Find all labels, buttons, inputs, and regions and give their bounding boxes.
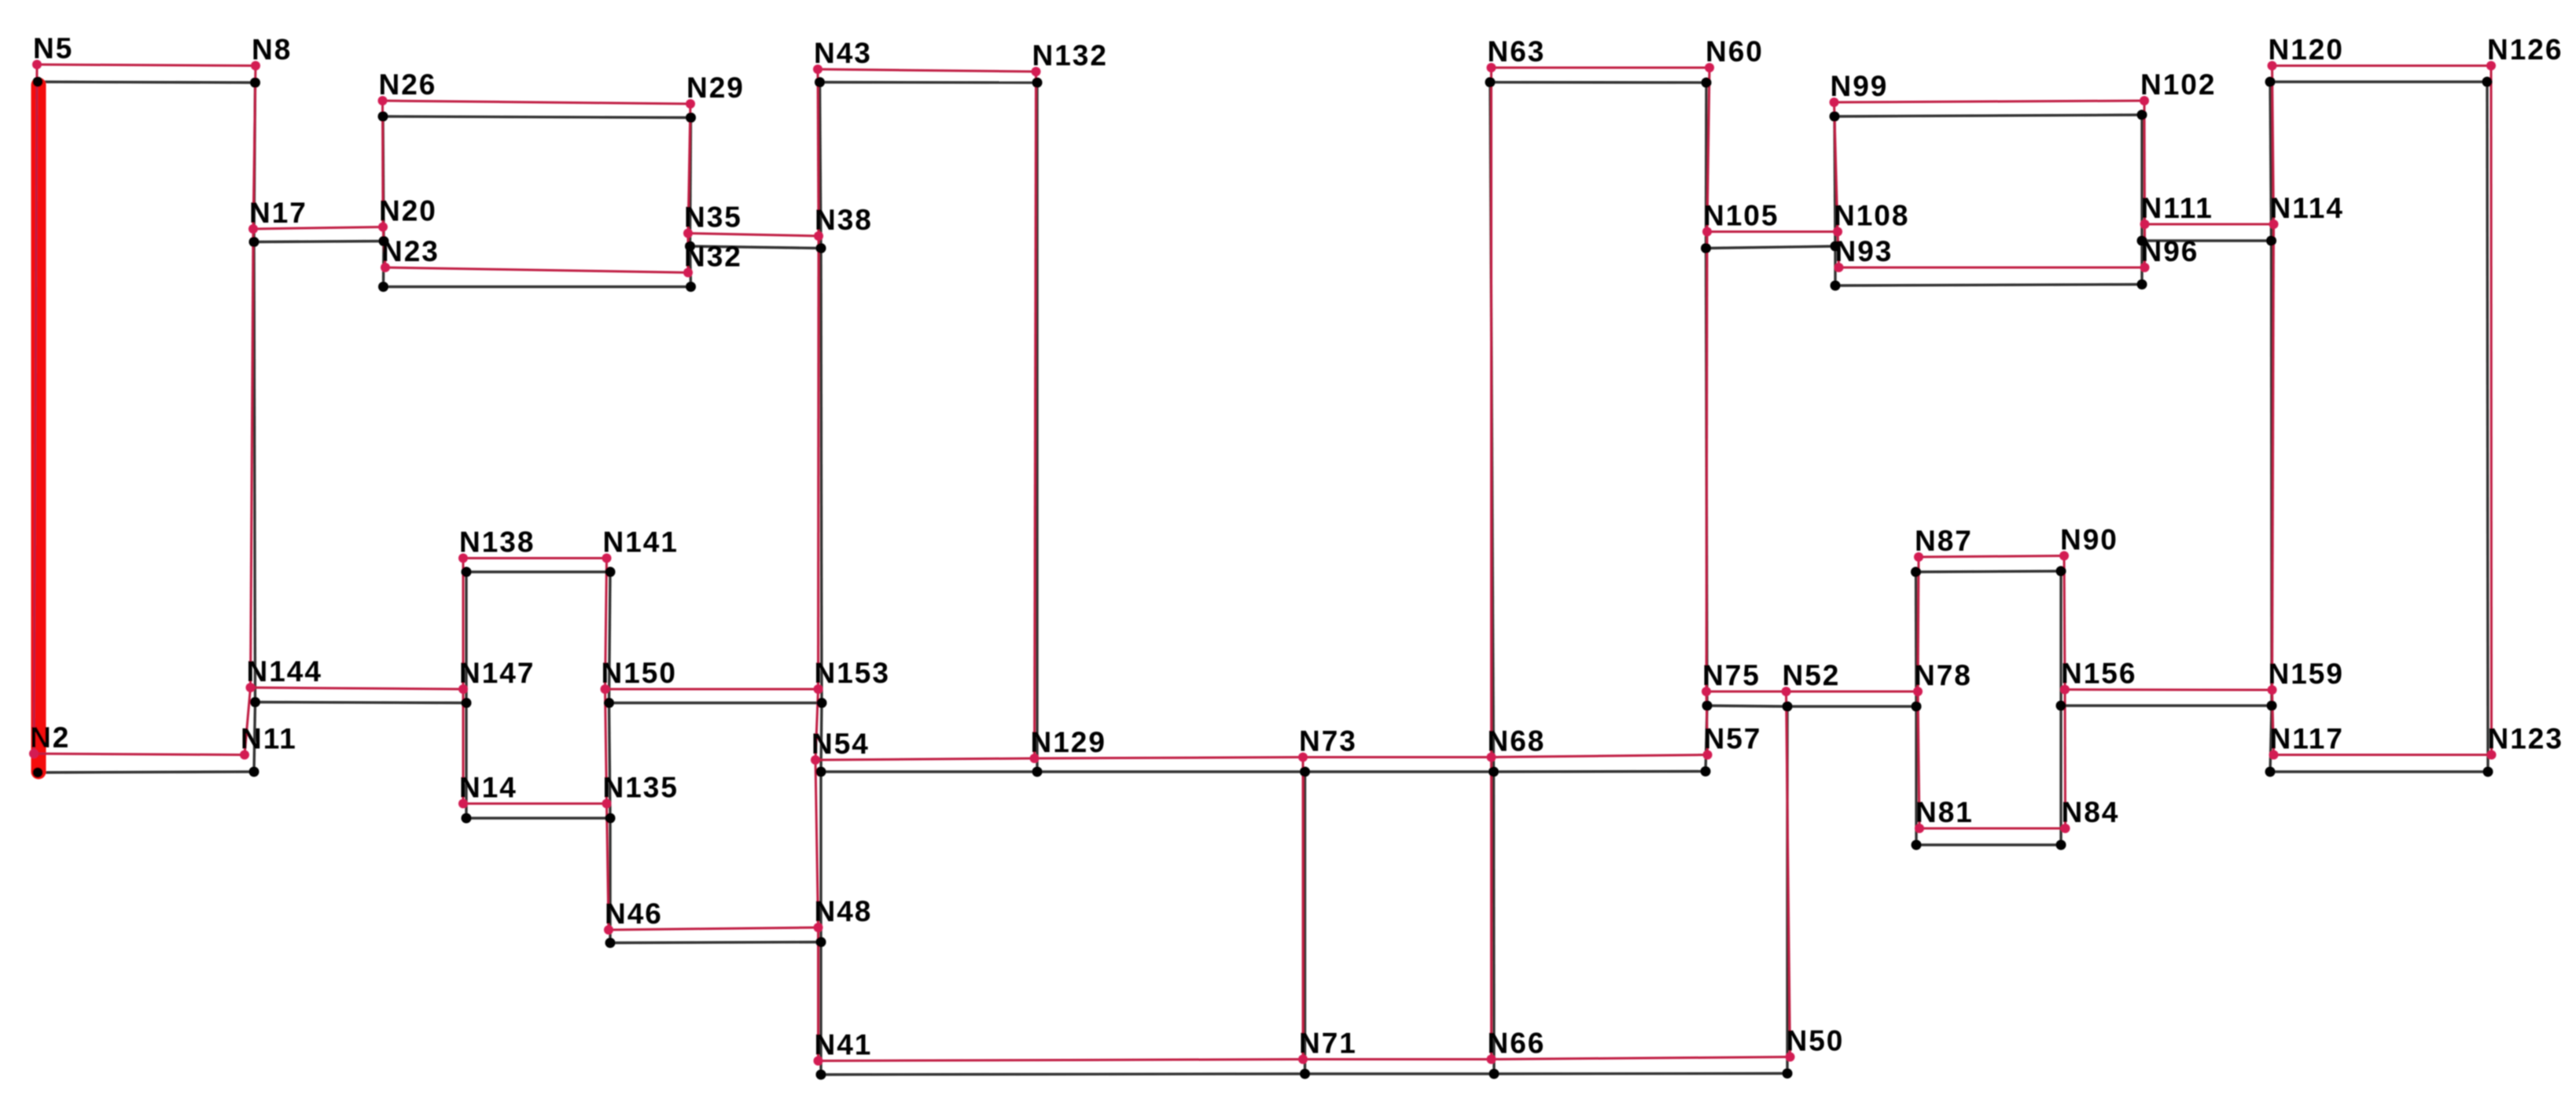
node N138 red marker bbox=[458, 554, 468, 563]
node N120 red marker bbox=[2268, 61, 2277, 71]
node N150 black marker bbox=[604, 698, 614, 708]
svg-text:N153: N153 bbox=[815, 657, 890, 689]
wire red edge N159-N156 bbox=[2065, 688, 2272, 691]
wire thick red highlighted edge N2-N5 bbox=[31, 85, 46, 772]
wire red edge N60-N63 bbox=[1492, 67, 1710, 69]
wire black edge N138-N147 bbox=[465, 572, 467, 703]
svg-text:N68: N68 bbox=[1488, 725, 1546, 758]
wire black edge N38-N43 bbox=[820, 83, 822, 249]
wire red edge N117-N159 bbox=[2272, 690, 2274, 755]
svg-text:N73: N73 bbox=[1299, 725, 1357, 758]
node N144 red marker bbox=[246, 683, 256, 692]
wire black edge N32-N23 bbox=[384, 286, 691, 288]
node N14 black marker bbox=[462, 813, 472, 824]
wire red edge N102-N111 bbox=[2144, 101, 2147, 224]
svg-text:N11: N11 bbox=[241, 723, 297, 755]
svg-text:N32: N32 bbox=[684, 241, 742, 273]
wire red edge N75-N57 bbox=[1706, 691, 1708, 755]
svg-text:N120: N120 bbox=[2269, 34, 2344, 66]
node N132 red marker bbox=[1032, 67, 1041, 76]
wire red edge N129-N73 bbox=[1035, 758, 1304, 759]
node N63 black marker bbox=[1485, 77, 1496, 87]
wire red edge N26-N29 bbox=[383, 101, 691, 104]
svg-text:N135: N135 bbox=[603, 772, 679, 804]
svg-text:N46: N46 bbox=[605, 898, 663, 930]
wire red edge N111-N114 bbox=[2145, 223, 2274, 226]
node N105 black marker bbox=[1701, 243, 1711, 253]
wire black edge N105-N60 bbox=[1705, 83, 1708, 249]
wire black edge N111-N114 bbox=[2142, 239, 2272, 242]
svg-text:N90: N90 bbox=[2060, 524, 2118, 556]
node N57 red marker bbox=[1703, 750, 1713, 760]
svg-text:N43: N43 bbox=[814, 37, 872, 69]
node N144 black marker bbox=[250, 697, 260, 707]
wire red edge N68-N57 bbox=[1492, 755, 1708, 758]
node N32 red marker bbox=[683, 268, 693, 278]
wire red edge N35-N38 bbox=[688, 234, 819, 237]
wire black edge N20-N26 bbox=[383, 116, 384, 242]
node N23 black marker bbox=[378, 282, 388, 292]
wire black edge N144-N11 bbox=[254, 703, 256, 773]
node N132 black marker bbox=[1032, 78, 1043, 88]
svg-text:N108: N108 bbox=[1834, 200, 1909, 232]
wire red edge N135-N150 bbox=[605, 689, 607, 804]
wire black edge N105-N108 bbox=[1706, 246, 1836, 249]
svg-text:N147: N147 bbox=[459, 657, 535, 689]
node N84 black marker bbox=[2056, 840, 2066, 850]
node N29 red marker bbox=[686, 99, 695, 109]
node N138 black marker bbox=[462, 567, 472, 577]
node N147 black marker bbox=[462, 698, 472, 708]
wire black edge N73-N68 bbox=[1305, 770, 1494, 773]
wire red edge N150-N141 bbox=[605, 559, 607, 690]
node N93 black marker bbox=[1831, 281, 1841, 291]
wire red edge N32-N23 bbox=[385, 267, 688, 273]
wire red edge N144-N11 bbox=[245, 688, 251, 755]
node N75 red marker bbox=[1702, 687, 1711, 696]
wire red edge N48-N54 bbox=[815, 760, 819, 927]
node N93 red marker bbox=[1834, 263, 1844, 272]
wire black edge N35-N32 bbox=[690, 246, 691, 287]
node N78 black marker bbox=[1912, 702, 1922, 712]
node N68 black marker bbox=[1489, 767, 1499, 777]
wire black edge N66-N50 bbox=[1494, 1072, 1787, 1075]
wire black edge N159-N114 bbox=[2270, 241, 2273, 706]
node N63 red marker bbox=[1487, 63, 1496, 72]
wire black edge N48-N41 bbox=[819, 942, 822, 1075]
node N26 red marker bbox=[378, 96, 388, 105]
node N73 black marker bbox=[1300, 767, 1310, 777]
svg-text:N71: N71 bbox=[1299, 1027, 1357, 1060]
wire black edge N54-N129 bbox=[821, 770, 1037, 773]
node N84 red marker bbox=[2061, 824, 2070, 833]
wire black edge N38-N153 bbox=[821, 249, 822, 703]
node N87 red marker bbox=[1914, 552, 1923, 562]
svg-text:N17: N17 bbox=[249, 197, 307, 229]
svg-text:N81: N81 bbox=[1915, 796, 1974, 828]
wire black edge N60-N63 bbox=[1490, 81, 1706, 84]
node N8 red marker bbox=[251, 61, 260, 71]
svg-text:N50: N50 bbox=[1787, 1025, 1845, 1057]
wire red edge N132-N129 bbox=[1035, 72, 1036, 758]
node N41 red marker bbox=[814, 1057, 823, 1066]
wire red edge N29-N35 bbox=[688, 104, 690, 234]
svg-text:N87: N87 bbox=[1915, 525, 1973, 557]
node N60 black marker bbox=[1702, 78, 1712, 88]
wire red edge N120-N126 bbox=[2272, 65, 2492, 67]
node N102 black marker bbox=[2137, 110, 2147, 120]
wire red edge N35-N32 bbox=[687, 234, 690, 273]
wire red edge N20-N26 bbox=[381, 101, 385, 227]
wire red edge N147-N144 bbox=[251, 688, 464, 689]
svg-text:N141: N141 bbox=[603, 526, 679, 559]
svg-text:N117: N117 bbox=[2270, 723, 2344, 755]
wire red edge N17-N20 bbox=[253, 227, 383, 230]
wire red edge N41-N71 bbox=[819, 1060, 1304, 1061]
node N75 black marker bbox=[1702, 701, 1713, 711]
node N99 black marker bbox=[1830, 112, 1840, 122]
wire red edge N81-N84 bbox=[1919, 828, 2066, 830]
svg-text:N38: N38 bbox=[815, 204, 873, 236]
wire black edge N135-N150 bbox=[609, 703, 611, 819]
node N129 black marker bbox=[1032, 767, 1043, 777]
node N147 red marker bbox=[458, 684, 468, 694]
wire red edge N75-N105 bbox=[1706, 232, 1707, 692]
node N48 red marker bbox=[814, 923, 823, 932]
wire black edge N114-N120 bbox=[2270, 82, 2272, 241]
wire black edge N108-N93 bbox=[1834, 246, 1836, 286]
node N153 red marker bbox=[814, 684, 823, 694]
wire red edge N66-N50 bbox=[1492, 1057, 1790, 1060]
svg-text:N66: N66 bbox=[1488, 1027, 1546, 1060]
svg-text:N60: N60 bbox=[1706, 35, 1764, 68]
svg-text:N35: N35 bbox=[684, 201, 742, 234]
svg-text:N96: N96 bbox=[2141, 235, 2199, 267]
wire red edge N141-N138 bbox=[463, 557, 607, 559]
svg-text:N20: N20 bbox=[379, 195, 437, 227]
wire black edge N29-N35 bbox=[690, 118, 691, 247]
wire black edge N71-N66 bbox=[1305, 1072, 1495, 1075]
wire red edge N108-N99 bbox=[1834, 102, 1838, 232]
svg-text:N111: N111 bbox=[2141, 192, 2214, 224]
wire black edge N52-N78 bbox=[1787, 705, 1916, 707]
node N11 red marker bbox=[240, 750, 249, 760]
node N129 red marker bbox=[1030, 754, 1040, 763]
wire red edge N52-N78 bbox=[1787, 691, 1919, 693]
svg-text:N54: N54 bbox=[811, 728, 870, 760]
wire red edge N114-N120 bbox=[2272, 66, 2274, 225]
node N41 black marker bbox=[816, 1070, 826, 1080]
svg-text:N41: N41 bbox=[815, 1029, 873, 1061]
node N111 red marker bbox=[2140, 219, 2150, 229]
node N126 black marker bbox=[2482, 77, 2493, 87]
node N52 black marker bbox=[1783, 702, 1793, 712]
svg-text:N14: N14 bbox=[459, 772, 517, 804]
svg-text:N52: N52 bbox=[1783, 659, 1841, 691]
node N2 red marker bbox=[29, 749, 39, 758]
wire red edge N52-N75 bbox=[1706, 691, 1787, 693]
node N96 black marker bbox=[2137, 279, 2147, 289]
node N123 black marker bbox=[2483, 767, 2493, 777]
svg-text:N150: N150 bbox=[602, 657, 677, 689]
node N71 black marker bbox=[1300, 1069, 1310, 1079]
svg-text:N8: N8 bbox=[252, 34, 292, 66]
wire black edge N41-N71 bbox=[821, 1074, 1305, 1075]
wire black edge N8-N17 bbox=[254, 83, 256, 242]
wire red edge N99-N102 bbox=[1834, 101, 2145, 102]
wire red edge N38-N43 bbox=[818, 69, 819, 236]
node N5 black marker bbox=[33, 77, 43, 87]
node N20 black marker bbox=[379, 236, 389, 246]
node N141 black marker bbox=[605, 567, 616, 577]
wire red edge N90-N87 bbox=[1919, 556, 2064, 558]
wire black edge N50-N52 bbox=[1786, 706, 1788, 1074]
wire red edge N43-N132 bbox=[818, 69, 1036, 72]
wire black edge N147-N144 bbox=[256, 703, 467, 703]
wire red edge N87-N78 bbox=[1918, 557, 1919, 691]
node N23 red marker bbox=[381, 263, 390, 272]
node N114 black marker bbox=[2266, 236, 2276, 246]
node N17 black marker bbox=[249, 237, 259, 247]
wire red edge N50-N52 bbox=[1787, 691, 1790, 1057]
wire black edge N26-N29 bbox=[383, 116, 691, 118]
node N156 black marker bbox=[2056, 701, 2066, 711]
wire black edge N52-N75 bbox=[1707, 706, 1787, 706]
wire black edge N147-N14 bbox=[465, 703, 467, 819]
wire black edge N117-N159 bbox=[2270, 706, 2272, 772]
wire black edge N78-N81 bbox=[1915, 706, 1917, 845]
svg-text:N84: N84 bbox=[2062, 796, 2120, 828]
node N17 red marker bbox=[248, 224, 258, 234]
node N81 red marker bbox=[1915, 824, 1924, 833]
node N108 red marker bbox=[1833, 227, 1842, 237]
wire black edge N93-N96 bbox=[1835, 285, 2142, 286]
node N159 red marker bbox=[2268, 685, 2277, 695]
svg-text:N5: N5 bbox=[33, 32, 73, 65]
wire red edge N66-N68 bbox=[1490, 758, 1492, 1060]
svg-text:N2: N2 bbox=[30, 721, 70, 754]
node N105 red marker bbox=[1702, 227, 1712, 237]
node N156 red marker bbox=[2060, 685, 2070, 695]
svg-text:N123: N123 bbox=[2488, 723, 2563, 755]
node N68 red marker bbox=[1487, 753, 1496, 762]
wire black edge N120-N126 bbox=[2270, 80, 2487, 83]
wire black edge N108-N99 bbox=[1834, 116, 1835, 246]
node N35 red marker bbox=[683, 229, 693, 238]
wire red edge N156-N90 bbox=[2064, 556, 2065, 690]
svg-text:N102: N102 bbox=[2140, 68, 2216, 101]
node N26 black marker bbox=[378, 112, 388, 122]
node N20 red marker bbox=[378, 223, 388, 232]
node N66 red marker bbox=[1487, 1055, 1496, 1064]
wire red edge N14-N135 bbox=[463, 802, 607, 805]
wire red edge N159-N114 bbox=[2272, 224, 2274, 690]
wire red edge N123-N117 bbox=[2274, 754, 2492, 756]
wire black edge N150-N141 bbox=[609, 572, 611, 703]
svg-text:N105: N105 bbox=[1703, 200, 1779, 232]
wire black edge N68-N57 bbox=[1494, 770, 1706, 773]
node N111 black marker bbox=[2137, 236, 2147, 246]
wire red edge N135-N46 bbox=[607, 804, 609, 931]
node N43 red marker bbox=[813, 65, 822, 74]
node N123 red marker bbox=[2487, 750, 2497, 760]
node N159 black marker bbox=[2267, 701, 2277, 711]
wire black edge N54-N153 bbox=[821, 703, 822, 773]
wire red edge N105-N108 bbox=[1707, 230, 1838, 233]
node N43 black marker bbox=[815, 77, 825, 87]
wire black edge N132-N129 bbox=[1036, 83, 1038, 772]
wire black edge N156-N90 bbox=[2059, 571, 2062, 706]
node N2 black marker bbox=[33, 768, 43, 778]
wire red edge N126-N123 bbox=[2490, 66, 2493, 755]
node N71 red marker bbox=[1298, 1055, 1308, 1064]
node N48 black marker bbox=[816, 937, 826, 947]
node N38 red marker bbox=[814, 231, 823, 241]
wire black edge N87-N78 bbox=[1915, 572, 1918, 706]
wire black edge N17-N144 bbox=[254, 242, 256, 703]
wire black edge N17-N20 bbox=[254, 242, 384, 242]
wire black edge N129-N73 bbox=[1037, 770, 1305, 773]
wire red edge N63-N68 bbox=[1490, 68, 1492, 758]
node N108 black marker bbox=[1831, 242, 1841, 252]
wire black edge N5-N8 bbox=[38, 82, 256, 83]
svg-text:N93: N93 bbox=[1835, 235, 1893, 267]
wire red edge N71-N73 bbox=[1302, 758, 1305, 1060]
wire black edge N135-N46 bbox=[609, 818, 611, 943]
svg-text:N114: N114 bbox=[2270, 192, 2344, 224]
node N46 black marker bbox=[605, 938, 616, 948]
wire red edge N11-N2 bbox=[34, 754, 245, 755]
node N29 black marker bbox=[686, 112, 696, 123]
wire red edge N84-N156 bbox=[2064, 690, 2067, 829]
node N117 red marker bbox=[2269, 750, 2279, 760]
svg-text:N144: N144 bbox=[247, 655, 322, 688]
svg-text:N57: N57 bbox=[1704, 723, 1762, 755]
svg-text:N48: N48 bbox=[815, 895, 873, 927]
node N99 red marker bbox=[1830, 98, 1839, 107]
svg-text:N126: N126 bbox=[2487, 34, 2563, 66]
wire red edge N71-N66 bbox=[1303, 1058, 1492, 1060]
node N57 black marker bbox=[1701, 766, 1711, 776]
wire black edge N159-N156 bbox=[2061, 704, 2272, 706]
wire red edge N96-N111 bbox=[2144, 224, 2146, 267]
wire black edge N153-N150 bbox=[609, 702, 822, 704]
wire black edge N84-N156 bbox=[2059, 706, 2062, 845]
wire red edge N147-N14 bbox=[462, 689, 465, 804]
node N73 red marker bbox=[1298, 753, 1308, 762]
node N50 black marker bbox=[1783, 1068, 1793, 1079]
wire black edge N11-N2 bbox=[38, 772, 254, 773]
svg-text:N63: N63 bbox=[1488, 35, 1546, 68]
wire red edge N8-N17 bbox=[253, 66, 256, 230]
node N66 black marker bbox=[1489, 1069, 1500, 1079]
wire red edge N73-N68 bbox=[1303, 756, 1492, 758]
wire black edge N66-N68 bbox=[1492, 772, 1496, 1074]
node N126 red marker bbox=[2486, 61, 2496, 71]
node N117 black marker bbox=[2265, 767, 2276, 777]
wire black edge N43-N132 bbox=[820, 81, 1038, 84]
node N78 red marker bbox=[1913, 687, 1923, 696]
node N32 black marker bbox=[686, 282, 696, 292]
svg-text:N78: N78 bbox=[1914, 659, 1972, 691]
wire red edge N138-N147 bbox=[462, 559, 465, 690]
node N120 black marker bbox=[2265, 77, 2276, 87]
node N102 red marker bbox=[2140, 96, 2149, 105]
wire red edge N5-N8 bbox=[37, 65, 256, 66]
svg-text:N129: N129 bbox=[1031, 726, 1106, 758]
wire black edge N99-N102 bbox=[1834, 115, 2142, 116]
node N87 black marker bbox=[1911, 567, 1921, 577]
svg-text:N75: N75 bbox=[1702, 659, 1761, 691]
svg-text:N156: N156 bbox=[2061, 658, 2136, 690]
wire red edge N2-N5 bbox=[34, 65, 37, 754]
svg-text:N159: N159 bbox=[2269, 658, 2344, 690]
svg-text:N138: N138 bbox=[459, 526, 535, 559]
node N38 black marker bbox=[816, 243, 826, 253]
node N60 red marker bbox=[1705, 63, 1714, 72]
wire black edge N123-N117 bbox=[2270, 770, 2488, 773]
wire red edge N17-N144 bbox=[251, 229, 254, 688]
node N135 red marker bbox=[602, 799, 612, 809]
wire red edge N153-N150 bbox=[605, 688, 819, 691]
wire red edge N54-N129 bbox=[815, 758, 1035, 760]
wire black edge N126-N123 bbox=[2487, 82, 2488, 772]
node N81 black marker bbox=[1912, 840, 1922, 850]
node N5 red marker bbox=[32, 60, 42, 69]
svg-text:N29: N29 bbox=[686, 72, 745, 104]
wire red edge N38-N153 bbox=[817, 236, 820, 689]
node N96 red marker bbox=[2140, 263, 2150, 272]
wire black edge N63-N68 bbox=[1490, 83, 1494, 773]
node N54 black marker bbox=[816, 767, 826, 777]
wire black edge N81-N84 bbox=[1916, 843, 2061, 846]
svg-text:N99: N99 bbox=[1831, 70, 1889, 102]
wire black edge N71-N73 bbox=[1304, 772, 1306, 1074]
node N46 red marker bbox=[604, 925, 613, 935]
node N150 red marker bbox=[601, 684, 610, 694]
svg-text:N26: N26 bbox=[379, 68, 437, 101]
wire black edge N90-N87 bbox=[1916, 571, 2062, 572]
wire red edge N105-N60 bbox=[1707, 68, 1709, 232]
wire red edge N48-N41 bbox=[817, 927, 819, 1061]
wire black edge N2-N5 bbox=[36, 82, 39, 773]
wire black edge N46-N48 bbox=[610, 942, 821, 943]
node N90 black marker bbox=[2056, 566, 2066, 577]
node N114 red marker bbox=[2269, 219, 2279, 229]
wire black edge N75-N105 bbox=[1706, 249, 1708, 706]
wire black edge N102-N111 bbox=[2140, 115, 2143, 241]
node N11 black marker bbox=[249, 767, 259, 777]
wire black edge N141-N138 bbox=[466, 570, 610, 573]
node N8 black marker bbox=[250, 78, 260, 88]
wire red edge N108-N93 bbox=[1838, 232, 1839, 268]
wire black edge N20-N23 bbox=[382, 242, 385, 287]
wire red edge N93-N96 bbox=[1839, 267, 2145, 269]
node N52 red marker bbox=[1782, 687, 1791, 696]
svg-text:N23: N23 bbox=[381, 235, 440, 267]
node N14 red marker bbox=[458, 799, 468, 809]
wire red edge N78-N81 bbox=[1918, 691, 1919, 828]
svg-text:N132: N132 bbox=[1032, 39, 1108, 72]
node N50 red marker bbox=[1786, 1053, 1795, 1062]
node N90 red marker bbox=[2059, 551, 2069, 561]
wire black edge N48-N54 bbox=[819, 772, 822, 942]
node N153 black marker bbox=[817, 698, 827, 708]
wire black edge N14-N135 bbox=[466, 817, 610, 819]
wire red edge N46-N48 bbox=[609, 927, 819, 930]
node N135 black marker bbox=[605, 813, 616, 824]
node N141 red marker bbox=[602, 554, 612, 563]
